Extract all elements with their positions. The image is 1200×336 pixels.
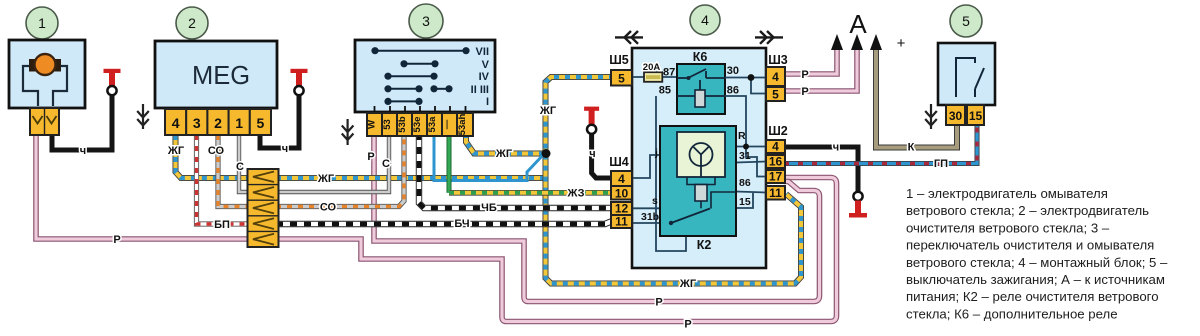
svg-text:2: 2 — [214, 115, 222, 131]
svg-text:MEG: MEG — [192, 62, 250, 90]
svg-text:Р: Р — [684, 319, 691, 331]
svg-text:Р: Р — [801, 69, 808, 81]
svg-text:ЖГ: ЖГ — [539, 105, 557, 117]
svg-text:II III: II III — [471, 84, 489, 96]
svg-text:30: 30 — [949, 109, 963, 123]
svg-text:R: R — [738, 130, 746, 142]
svg-text:Р: Р — [367, 151, 374, 163]
svg-text:4: 4 — [772, 70, 779, 84]
svg-text:Ш5: Ш5 — [609, 53, 629, 67]
svg-text:СО: СО — [320, 202, 337, 214]
svg-text:53e: 53e — [412, 117, 423, 133]
svg-text:53b: 53b — [397, 116, 408, 133]
svg-text:s: s — [652, 195, 658, 207]
svg-text:15: 15 — [739, 196, 751, 208]
svg-text:ЖГ: ЖГ — [495, 148, 513, 160]
svg-text:53: 53 — [382, 119, 393, 130]
svg-text:5: 5 — [962, 13, 970, 29]
svg-text:4: 4 — [172, 115, 180, 131]
svg-text:31b: 31b — [641, 211, 659, 223]
svg-text:К6: К6 — [693, 50, 708, 64]
svg-text:3: 3 — [193, 115, 201, 131]
svg-text:А: А — [849, 9, 867, 39]
svg-text:53a: 53a — [427, 116, 438, 133]
svg-text:ЖГ: ЖГ — [317, 173, 335, 185]
svg-text:ч: ч — [282, 143, 288, 155]
svg-text:БЧ: БЧ — [454, 218, 469, 230]
svg-text:87: 87 — [663, 67, 675, 79]
svg-text:11: 11 — [769, 186, 782, 200]
svg-text:4: 4 — [701, 12, 709, 28]
svg-text:+: + — [897, 35, 906, 52]
svg-text:ЖЗ: ЖЗ — [567, 188, 585, 200]
svg-text:W: W — [367, 120, 378, 129]
svg-text:ЖГ: ЖГ — [167, 145, 185, 157]
svg-text:15: 15 — [969, 109, 983, 123]
svg-text:12: 12 — [615, 202, 629, 216]
svg-text:БП: БП — [214, 219, 230, 231]
svg-text:1: 1 — [38, 15, 46, 31]
svg-text:30: 30 — [727, 65, 739, 77]
svg-text:Р: Р — [655, 297, 662, 309]
svg-text:5: 5 — [618, 72, 625, 86]
svg-text:5: 5 — [772, 88, 779, 102]
svg-text:I: I — [486, 96, 489, 108]
svg-text:86: 86 — [739, 177, 751, 189]
svg-text:СО: СО — [208, 145, 225, 157]
svg-text:ЖГ: ЖГ — [679, 278, 697, 290]
svg-text:85: 85 — [659, 85, 671, 97]
svg-text:20А: 20А — [643, 62, 661, 73]
svg-text:V: V — [482, 59, 490, 71]
svg-text:31: 31 — [739, 150, 751, 162]
svg-text:Ш2: Ш2 — [768, 124, 788, 138]
svg-text:ЧБ: ЧБ — [481, 202, 497, 214]
svg-text:VII: VII — [476, 46, 489, 58]
svg-text:ч: ч — [833, 142, 839, 154]
svg-text:1: 1 — [235, 115, 243, 131]
svg-text:3: 3 — [422, 13, 430, 29]
svg-text:11: 11 — [615, 215, 628, 229]
svg-text:С: С — [236, 161, 244, 173]
svg-text:Р: Р — [801, 86, 808, 98]
svg-text:10: 10 — [615, 187, 629, 201]
svg-text:ч: ч — [589, 148, 595, 160]
svg-text:Р: Р — [113, 234, 120, 246]
svg-text:К2: К2 — [697, 238, 712, 252]
svg-text:К: К — [908, 142, 915, 154]
svg-text:j: j — [654, 147, 658, 159]
svg-text:ГП: ГП — [934, 158, 948, 170]
svg-text:5: 5 — [257, 115, 265, 131]
svg-text:4: 4 — [772, 140, 779, 154]
svg-text:86: 86 — [727, 85, 739, 97]
svg-text:ч: ч — [80, 145, 86, 157]
svg-text:4: 4 — [618, 172, 625, 186]
svg-text:17: 17 — [769, 170, 783, 184]
svg-text:2: 2 — [188, 15, 196, 31]
svg-text:16: 16 — [769, 155, 783, 169]
svg-text:С: С — [382, 158, 390, 170]
svg-text:Ш3: Ш3 — [768, 53, 788, 67]
svg-text:IV: IV — [479, 71, 490, 83]
svg-text:53ah: 53ah — [457, 113, 468, 135]
svg-text:Ш4: Ш4 — [609, 155, 629, 169]
svg-text:—: — — [442, 119, 453, 129]
